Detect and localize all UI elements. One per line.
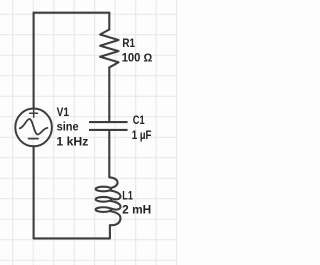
svg-text:1 kHz: 1 kHz — [56, 136, 88, 148]
inductor L1 — [96, 177, 121, 225]
svg-text:C1: C1 — [133, 115, 145, 127]
resistor R1 labels — [122, 38, 153, 64]
wire inductor to bottom — [109, 225, 111, 238]
wire capacitor to inductor — [108, 131, 110, 177]
wire bottom — [34, 237, 110, 239]
svg-text:R1: R1 — [122, 38, 135, 50]
svg-text:1 µF: 1 µF — [132, 130, 152, 142]
resistor R1 — [100, 30, 118, 68]
wire top — [34, 12, 110, 14]
svg-text:100 Ω: 100 Ω — [122, 53, 153, 65]
wire resistor to capacitor — [108, 67, 110, 121]
inductor L1 labels — [122, 191, 151, 217]
svg-text:2 mH: 2 mH — [122, 205, 151, 217]
wire left rail lower — [33, 147, 35, 239]
voltage source V1 — [15, 109, 52, 147]
wire right rail upper — [108, 13, 110, 30]
voltage source V1 labels — [56, 107, 88, 148]
capacitor C1 labels — [132, 115, 152, 142]
capacitor C1 — [89, 122, 128, 130]
svg-text:L1: L1 — [122, 191, 133, 203]
svg-text:sine: sine — [57, 122, 79, 134]
svg-text:V1: V1 — [57, 107, 70, 119]
wire left rail upper — [33, 13, 35, 109]
